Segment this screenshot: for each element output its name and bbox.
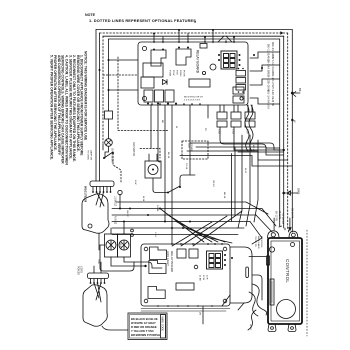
wire label column A <box>267 44 271 109</box>
wire mid-right run 3 <box>187 151 288 160</box>
svg-text:HI PLT: HI PLT <box>249 324 251 331</box>
control ear hole <box>271 327 274 330</box>
svg-text:BK-12: BK-12 <box>126 211 128 218</box>
svg-text:W-12 N: W-12 N <box>278 211 280 219</box>
relay K6 <box>165 90 174 102</box>
svg-text:W-14: W-14 <box>142 196 144 202</box>
component inline fuse <box>105 111 113 119</box>
wire mid bus 4 <box>112 227 244 229</box>
svg-text:OR-14: OR-14 <box>212 180 214 187</box>
control transformer circle <box>277 300 296 319</box>
aux hole <box>223 247 227 251</box>
notes block (rotated service notes) <box>49 51 87 203</box>
wire riser d <box>171 105 173 244</box>
wire mid bus 2 <box>112 214 256 216</box>
wire dashed option <box>140 149 160 159</box>
TB2 pin dots <box>90 282 106 284</box>
label rotisserie <box>187 144 192 152</box>
svg-text:R-12B OVN: R-12B OVN <box>267 75 271 91</box>
control edge connector detail <box>271 281 273 303</box>
wire rising diagonal 1 <box>172 222 212 246</box>
capacitor C1 <box>210 64 216 70</box>
wire motor outlet <box>111 257 162 268</box>
relay K2 <box>176 49 191 65</box>
svg-text:BR-14: BR-14 <box>223 192 225 199</box>
svg-text:GY-14 CLK: GY-14 CLK <box>271 57 275 72</box>
wire bus into board 1 <box>109 59 139 61</box>
wire diagonal drop 3 <box>250 222 262 245</box>
relay board mounting hole <box>142 96 146 100</box>
legend inner border <box>130 315 166 339</box>
aux hole <box>223 299 227 303</box>
svg-text:FAN MOTOR: FAN MOTOR <box>132 142 135 156</box>
svg-text:L1 BK-12: L1 BK-12 <box>114 196 117 207</box>
wire plug2 tail <box>102 326 128 330</box>
wire ear lead right <box>289 218 291 231</box>
label power cord <box>77 266 83 275</box>
svg-text:BK W R BU: BK W R BU <box>260 236 262 248</box>
wire right bus 4 <box>279 39 281 226</box>
lamp filament <box>106 140 111 145</box>
wire inner top bus <box>109 38 280 40</box>
junction right bus <box>283 92 294 152</box>
control ear dome right <box>289 231 298 238</box>
wire step board to bus 1 <box>250 52 280 58</box>
relay coil K3b <box>141 77 154 88</box>
svg-text:W: W <box>293 120 297 123</box>
ground junction <box>282 192 285 195</box>
wire step board to bus 2 <box>250 65 280 71</box>
wire bus into board 2 <box>103 74 138 76</box>
relay coil K3 <box>143 63 163 77</box>
diode D1 <box>163 80 168 85</box>
svg-text:W10175229: W10175229 <box>84 186 88 203</box>
svg-text:W-14A BRL: W-14A BRL <box>267 60 271 76</box>
svg-text:BK: BK <box>161 120 163 123</box>
svg-text:GY-14: GY-14 <box>185 163 187 170</box>
wire vertical drop plug1 <box>238 135 242 228</box>
svg-text:Y-14: Y-14 <box>154 232 156 237</box>
wire switch2 leads <box>153 175 195 193</box>
control ear bottom-left <box>268 324 276 332</box>
svg-text:J2 W: J2 W <box>202 275 204 281</box>
capacitor C2 <box>202 71 205 74</box>
svg-text:POWER: POWER <box>77 266 80 275</box>
connector CN2 <box>233 87 244 94</box>
svg-text:RELAY BOARD: RELAY BOARD <box>196 50 200 74</box>
relay K5 <box>155 90 164 102</box>
relay board bottom pins <box>151 103 201 105</box>
legend rows <box>131 317 160 337</box>
wire aux to control <box>222 275 262 310</box>
svg-text:1. DOTTED LINES REPRESENT OPTI: 1. DOTTED LINES REPRESENT OPTIONAL FEATU… <box>89 18 196 23</box>
plug outline 2 <box>83 285 107 327</box>
svg-text:J3 R: J3 R <box>206 275 208 280</box>
svg-text:W-12: W-12 <box>244 168 246 174</box>
relay K1 <box>151 50 166 66</box>
svg-text:RELAY BOARD: RELAY BOARD <box>170 251 174 273</box>
control ear dome left <box>268 231 280 238</box>
wire relay board feeds <box>154 30 234 42</box>
note header text <box>85 13 197 24</box>
svg-text:GY-14 P4: GY-14 P4 <box>290 208 292 219</box>
wire fuse leads <box>108 110 110 139</box>
component rect A <box>177 249 186 258</box>
terminal ring <box>118 190 122 194</box>
label column above control <box>274 208 292 224</box>
motor symbol <box>148 165 158 175</box>
wire control feeds <box>279 226 289 232</box>
clock motor M1 <box>105 234 118 257</box>
svg-text:P5 OR: P5 OR <box>183 70 185 77</box>
wire ring lead <box>119 195 121 209</box>
legend box <box>128 313 167 340</box>
junction dots left bus <box>99 59 110 91</box>
svg-text:BK-12 BAKE: BK-12 BAKE <box>267 44 271 62</box>
wire loop lower left <box>100 245 134 271</box>
junction dot step wires <box>253 54 263 69</box>
pin header top <box>200 44 207 49</box>
wire mid bus 1 <box>112 208 262 210</box>
svg-text:P2: P2 <box>204 128 206 131</box>
svg-text:P3 R: P3 R <box>176 70 178 75</box>
wire ear lead left <box>273 218 275 230</box>
wire L1 top bus <box>96 29 292 31</box>
wire step board to bus 3 <box>250 79 280 85</box>
wire L2 top bus (dashed optional) <box>100 32 288 34</box>
arrow indicator L1 <box>292 92 300 97</box>
ground arrow <box>284 191 298 195</box>
svg-text:TO OVEN: TO OVEN <box>87 150 89 160</box>
lamp oven light <box>105 139 113 147</box>
wire mid bus 3 <box>112 221 250 223</box>
control ear hole <box>291 327 294 330</box>
wire motors top <box>111 222 124 235</box>
clock motor M2 <box>118 234 131 257</box>
svg-text:N W: N W <box>134 180 136 185</box>
control edge connector <box>270 279 274 305</box>
control hole small <box>269 247 274 252</box>
svg-text:W: W <box>175 126 177 129</box>
switch SW2 <box>168 186 180 193</box>
wire diagonal drop 2 <box>256 215 272 232</box>
svg-text:o: o <box>194 19 197 24</box>
terminal block pins <box>93 187 111 193</box>
wire diagonal drop 8 <box>196 235 232 244</box>
svg-text:P4 BU: P4 BU <box>179 70 181 77</box>
wire mid bus 0 <box>116 202 268 214</box>
svg-text:W WHITE GY GRAY: W WHITE GY GRAY <box>131 321 156 325</box>
capacitor C3 <box>194 265 198 269</box>
dotted edge right <box>306 230 308 336</box>
relay K9 <box>148 287 165 299</box>
aux pin labels <box>199 275 208 281</box>
wire mid-right run 2 <box>196 147 284 155</box>
svg-text:BR BROWN P PURPLE: BR BROWN P PURPLE <box>131 333 160 337</box>
wire bottom run <box>141 309 230 312</box>
wire rising diagonal 3 <box>193 211 242 246</box>
label AUX RELAY BOARD <box>166 251 174 273</box>
wire TB2 feeds <box>94 262 101 273</box>
wire right drops to bus <box>220 127 284 152</box>
aux relay board outline <box>141 244 230 306</box>
connector P1 below board <box>217 105 227 127</box>
svg-text:NOTE: NOTE <box>85 13 96 17</box>
TB2 pins <box>91 279 105 284</box>
control ear dome hole <box>292 233 296 237</box>
junction dots top bus <box>153 29 235 38</box>
svg-text:AUX LGHT: AUX LGHT <box>166 251 170 266</box>
aux hole <box>144 299 148 303</box>
connector CN5 grid <box>207 251 223 269</box>
svg-text:TO LATCH: TO LATCH <box>281 213 284 224</box>
wire riser c <box>164 105 166 222</box>
switch SW1 <box>104 152 113 158</box>
wire angled pair <box>218 36 232 42</box>
control ear bottom-right <box>288 324 296 332</box>
label harness left of control <box>254 236 262 249</box>
wire left bus N (dashed) <box>102 36 104 144</box>
wire left bus L2 <box>99 33 101 181</box>
relay K1 pins <box>153 49 164 51</box>
wire mid-right run 4 <box>180 156 292 167</box>
wire left bus inner <box>108 39 110 110</box>
IC U2 <box>176 283 194 290</box>
switch SW1 contacts <box>103 152 114 159</box>
wire below control <box>248 310 256 330</box>
wire harness squiggle <box>245 105 249 151</box>
svg-text:BK-14: BK-14 <box>252 145 254 152</box>
svg-text:CONTROL: CONTROL <box>285 259 290 283</box>
wire inside plug2 <box>94 283 101 302</box>
connector stack pins <box>238 68 244 93</box>
wire right bus outer <box>291 30 293 233</box>
optional rotisserie box (dashed) <box>182 141 208 159</box>
svg-text:WIRE CODE: WIRE CODE <box>161 317 164 332</box>
svg-text:BU-14 FAN N: BU-14 FAN N <box>267 90 271 109</box>
wire mid bus 5 <box>112 234 238 236</box>
scattered wire labels <box>97 120 254 264</box>
wire riser e <box>189 105 191 175</box>
svg-text:R RED OR ORANGE: R RED OR ORANGE <box>131 325 157 329</box>
control inner panel <box>271 241 300 321</box>
svg-text:P1 BK: P1 BK <box>169 70 171 77</box>
wire vertical drop plug2 <box>246 135 250 226</box>
wire right bus 2 (dashed) <box>287 33 289 230</box>
svg-text:LAMP SW: LAMP SW <box>90 150 93 161</box>
svg-text:Y-14C DLB W: Y-14C DLB W <box>271 87 275 106</box>
connector CN1 grid <box>221 51 237 69</box>
legend header strip <box>161 315 166 339</box>
wire diagonal drop 4 <box>160 209 204 243</box>
svg-text:1 2 3 4 5 6 7 8 9: 1 2 3 4 5 6 7 8 9 <box>184 100 201 102</box>
control ear dome hole <box>271 233 275 237</box>
svg-text:P7: P7 <box>198 312 201 316</box>
wire vertical pair <box>232 147 236 222</box>
wire right bus 3 <box>283 36 285 228</box>
relay board mounting hole <box>142 46 146 50</box>
svg-text:BR-14 LTH: BR-14 LTH <box>271 72 275 87</box>
svg-text:OR-14 LMP: OR-14 LMP <box>271 42 275 58</box>
relay K8 <box>149 261 166 274</box>
terminal circle <box>88 224 92 228</box>
relay board top pins <box>153 41 235 43</box>
label lamp circuit <box>87 150 93 161</box>
motor fan <box>145 161 161 178</box>
terminal circles pair <box>131 229 134 232</box>
relay bottom pin dots <box>147 103 177 105</box>
svg-text:R-14B: R-14B <box>156 205 158 212</box>
svg-text:CORD: CORD <box>80 266 83 273</box>
relay K7 <box>150 247 167 260</box>
connector P2 below board <box>231 105 241 127</box>
wire diagonal drop 7 <box>186 228 225 242</box>
aux top pins <box>171 243 223 245</box>
svg-text:GRD: GRD <box>297 188 301 194</box>
wire inside plug <box>96 192 104 207</box>
switch SW2 contacts <box>167 186 181 194</box>
wire diagonal drop 1 <box>262 209 276 227</box>
motor hub <box>152 169 154 171</box>
connector labels <box>218 129 249 134</box>
board bottom label row <box>184 97 204 102</box>
svg-text:TO PLT P6: TO PLT P6 <box>254 236 256 247</box>
terminal block TB2 <box>88 273 109 279</box>
svg-text:OVEN LIGHT: OVEN LIGHT <box>111 148 115 164</box>
svg-text:5. VERIFY PROPER OPERATION AFT: 5. VERIFY PROPER OPERATION AFTER SERVICI… <box>49 55 53 160</box>
svg-text:J1 BK: J1 BK <box>199 275 201 281</box>
aux bottom pins <box>157 305 213 307</box>
aux internal dot <box>231 257 233 259</box>
svg-text:CLK: CLK <box>119 243 121 248</box>
svg-text:N W-12: N W-12 <box>114 216 117 225</box>
terminal block TB1 <box>90 181 114 187</box>
relay K2 pins <box>178 47 189 49</box>
wire mid-right run 1 <box>190 143 280 150</box>
relay board outline <box>138 42 248 105</box>
control housing <box>268 238 302 324</box>
CN5 pins <box>224 254 226 266</box>
wire diagonal drop 6 <box>176 222 218 243</box>
wire bus into board 3 <box>109 89 139 91</box>
relay board mounting hole <box>240 97 243 100</box>
svg-text:Y YELLOW T TAN: Y YELLOW T TAN <box>131 329 153 333</box>
arrow marker on dashed bus <box>280 31 283 35</box>
wire squiggle to control <box>249 257 267 317</box>
dashed option boundary vertical <box>117 57 119 131</box>
wire motor leads <box>149 154 157 190</box>
junction dots mid bus <box>119 208 201 236</box>
aux hole <box>144 247 148 251</box>
wire diagonal drop 5 <box>168 215 212 242</box>
wire N top bus <box>103 35 284 37</box>
wire step board to bus 4 <box>250 98 280 104</box>
wire switch drop (optional dashed) <box>113 153 121 182</box>
svg-text:ROT: ROT <box>187 144 189 149</box>
svg-text:BU-14: BU-14 <box>167 152 169 159</box>
aux bracket outline <box>230 247 252 303</box>
wire left bus L1 <box>95 30 97 182</box>
control side tab <box>267 256 270 265</box>
svg-text:TOD: TOD <box>97 259 99 264</box>
dashed option boundary horizontal <box>118 130 168 132</box>
wire cord tail <box>98 233 100 250</box>
svg-text:BK: BK <box>298 88 302 92</box>
connector CN3 <box>233 96 244 103</box>
svg-text:BK W R BU OR GY: BK W R BU OR GY <box>184 97 204 99</box>
wire aux bottom lead <box>202 306 204 324</box>
wire vertical drop plug3 <box>254 140 258 222</box>
terminal block pin dots <box>92 191 111 193</box>
control hole small2 <box>291 243 295 247</box>
svg-text:BK BLACK BU BLUE: BK BLACK BU BLUE <box>131 317 158 321</box>
relay board pin labels <box>169 70 185 77</box>
svg-text:BK-12 P9: BK-12 P9 <box>274 211 276 222</box>
connector P3 below board <box>245 105 255 127</box>
connector CN1 pins <box>218 54 241 66</box>
connector stack right column <box>236 71 246 91</box>
wire riser b <box>158 105 160 162</box>
wire lamp feed <box>103 144 109 158</box>
IC U1 <box>189 79 210 87</box>
wire riser a <box>150 105 152 149</box>
wire label column B <box>271 42 275 106</box>
power cord plug outline <box>82 194 109 234</box>
svg-text:P2 W: P2 W <box>172 70 174 76</box>
wire rising diagonal 2 <box>181 216 227 246</box>
aux bracket slot <box>246 267 249 278</box>
relay K4 <box>144 90 153 102</box>
wire riser f <box>207 105 209 118</box>
component rect B <box>189 249 198 258</box>
svg-text:WIRE HARN: WIRE HARN <box>257 236 260 249</box>
junction dot <box>144 265 146 267</box>
